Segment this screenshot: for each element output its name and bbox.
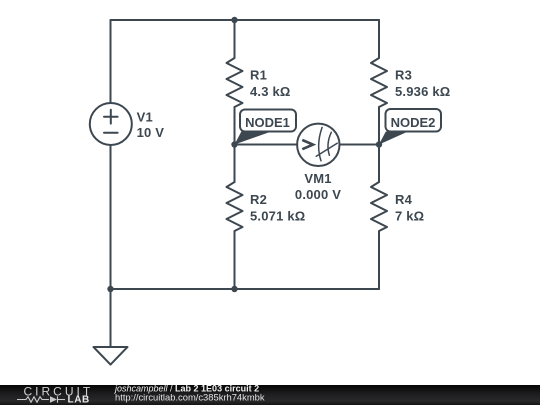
svg-text:R3: R3 (395, 68, 412, 83)
svg-text:R2: R2 (250, 192, 267, 207)
wire node1 to voltmeter (235, 144, 298, 146)
svg-text:10 V: 10 V (137, 125, 165, 140)
svg-text:7 kΩ: 7 kΩ (395, 208, 424, 223)
junction node NODE2 (376, 141, 382, 147)
svg-text:V1: V1 (137, 109, 153, 124)
junction top middle (231, 17, 237, 23)
svg-text:5.936 kΩ: 5.936 kΩ (395, 84, 450, 99)
svg-text:5.071 kΩ: 5.071 kΩ (250, 208, 305, 223)
svg-text:NODE1: NODE1 (245, 115, 290, 130)
svg-text:VM1: VM1 (304, 171, 331, 186)
svg-text:http://circuitlab.com/c385krh7: http://circuitlab.com/c385krh74kmbk (115, 391, 265, 402)
wire left branch upper (110, 20, 112, 103)
resistor R1 (227, 20, 243, 107)
wire ground stem (110, 289, 112, 347)
wire left branch lower (110, 145, 112, 289)
resistor R4 (371, 182, 387, 289)
node NODE2 flag box (386, 109, 442, 132)
node NODE2 flag pointer (379, 132, 408, 145)
logo mini resistor and diode (17, 396, 65, 402)
logo diode triangle (50, 396, 57, 403)
resistor R2 (227, 182, 243, 289)
svg-text:R4: R4 (395, 192, 413, 207)
svg-text:4.3 kΩ: 4.3 kΩ (250, 84, 291, 99)
node NODE1 flag box (240, 110, 296, 132)
svg-text:NODE2: NODE2 (391, 115, 436, 130)
junction bottom left (107, 286, 113, 292)
resistor R3 (371, 20, 387, 107)
svg-text:R1: R1 (250, 68, 267, 83)
svg-text:LAB: LAB (68, 395, 90, 405)
svg-text:0.000 V: 0.000 V (295, 187, 341, 202)
wire voltmeter to node2 (339, 144, 379, 146)
ground (94, 347, 128, 365)
junction bottom middle (231, 286, 237, 292)
wire right branch mid (378, 107, 380, 182)
voltage source V1 (90, 103, 132, 145)
wire middle branch mid (234, 107, 236, 182)
footer bar (0, 385, 540, 405)
wire bottom rail (111, 288, 380, 290)
voltmeter VM1 body (297, 124, 339, 166)
voltmeter VM1 polarity chevron (302, 140, 313, 149)
voltmeter VM1 meter arcs (316, 127, 337, 160)
wire top rail (111, 19, 380, 21)
node NODE1 flag pointer (235, 131, 273, 144)
junction node NODE1 (231, 141, 237, 147)
